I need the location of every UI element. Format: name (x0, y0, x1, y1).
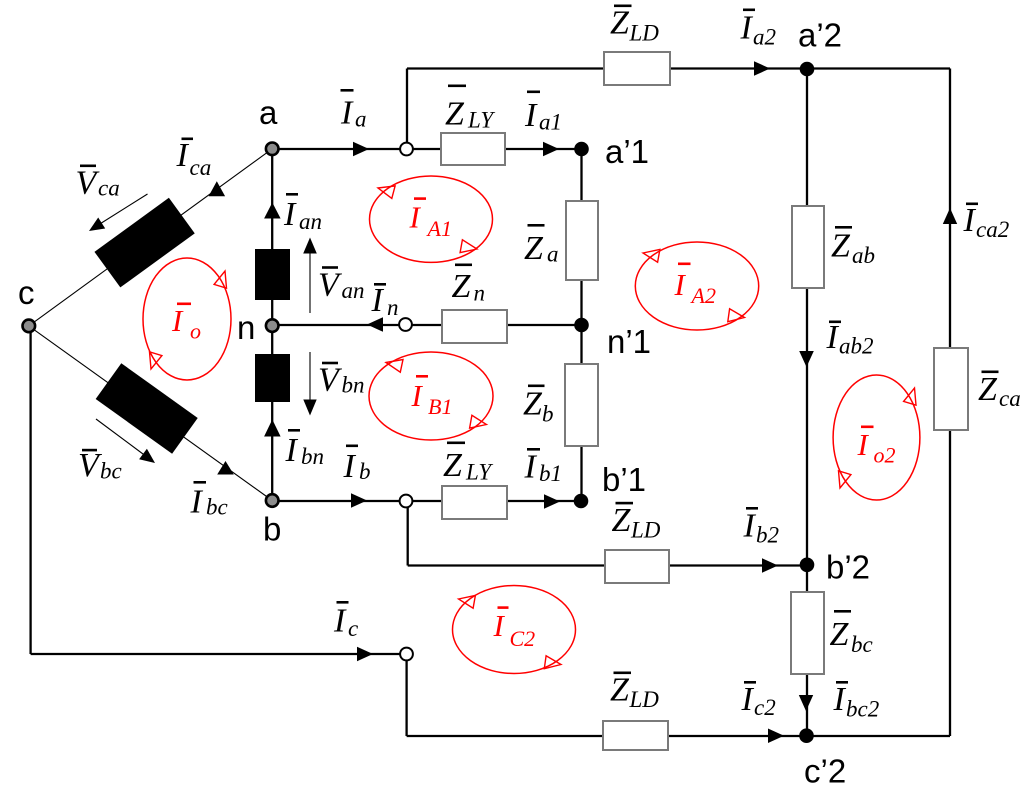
label Z_b (523, 385, 554, 427)
svg-text:I: I (743, 508, 757, 545)
wire I_c row (31, 653, 407, 655)
wire c column (29, 326, 31, 654)
impedance Z_ca box (934, 348, 968, 430)
svg-text:I: I (176, 137, 190, 174)
label Z_LD (c) (610, 672, 659, 713)
svg-text:ab2: ab2 (839, 334, 874, 359)
arrow I_a1 (543, 142, 559, 156)
wire right edge vertical (949, 69, 951, 737)
svg-text:Z: Z (978, 371, 998, 408)
arrow I_c (357, 647, 373, 661)
svg-text:LD: LD (629, 687, 660, 712)
svg-text:B1: B1 (428, 394, 452, 419)
wire c to b diagonal (29, 326, 272, 501)
label Z_ca (978, 371, 1021, 412)
svg-text:o: o (190, 319, 201, 344)
node b'2 (800, 558, 815, 573)
node b (266, 494, 279, 507)
wire bottom row (407, 735, 950, 737)
loop ellipse I_o (143, 258, 231, 380)
svg-text:ca2: ca2 (976, 217, 1009, 242)
svg-text:I: I (524, 449, 538, 486)
svg-text:I: I (371, 282, 385, 319)
label I_b (343, 445, 371, 486)
svg-text:ca: ca (98, 176, 120, 201)
label I_c (333, 601, 358, 641)
arrow I_bc2 (799, 695, 813, 711)
svg-text:LD: LD (630, 518, 661, 543)
svg-text:I: I (283, 196, 297, 233)
terminal on a row (400, 143, 413, 156)
arrow I_ca2 (943, 208, 957, 224)
node c (23, 320, 36, 333)
svg-text:LY: LY (465, 460, 493, 485)
svg-text:b: b (542, 402, 554, 427)
svg-text:Z: Z (443, 447, 463, 484)
label I_a1 (524, 91, 562, 135)
svg-text:Z: Z (831, 228, 851, 265)
svg-text:Z: Z (524, 230, 544, 267)
wire n row (272, 324, 582, 326)
arrow I_ca on diagonal (209, 181, 226, 196)
svg-text:c2: c2 (754, 695, 776, 720)
impedance Z_LD (c phase) box (603, 721, 668, 750)
label Z_LD (a) (610, 5, 659, 46)
label I_ca (176, 137, 212, 180)
svg-text:c: c (18, 274, 35, 311)
svg-text:a’2: a’2 (798, 17, 842, 54)
terminal on I_c row (400, 648, 413, 661)
svg-text:Z: Z (612, 502, 632, 539)
arrow I_n (367, 317, 383, 332)
impedance Z_a box (566, 201, 598, 280)
svg-text:a’1: a’1 (605, 133, 649, 170)
svg-text:ca: ca (190, 155, 212, 180)
svg-text:I: I (493, 608, 506, 643)
impedance Z_LY (a phase) box (441, 133, 505, 165)
arrow I_b1 (544, 494, 560, 509)
svg-text:an: an (342, 278, 365, 303)
impedance Z_LD (a phase) box (604, 52, 670, 85)
label Z_LD (b) (612, 502, 661, 543)
label I_o2 (857, 426, 896, 468)
source winding a-n (255, 249, 290, 300)
arrow I_bc on diagonal (217, 461, 234, 475)
voltage arrow V_bc (96, 419, 145, 456)
label I_a (340, 89, 367, 132)
svg-text:I: I (285, 432, 299, 469)
arrow I_an (264, 203, 281, 219)
svg-text:bc2: bc2 (846, 697, 879, 722)
node a'1 (574, 142, 589, 157)
svg-text:I: I (411, 378, 424, 413)
node n'1 (574, 318, 589, 333)
svg-text:I: I (190, 484, 204, 521)
voltage arrow V_an (309, 252, 311, 313)
svg-text:Z: Z (523, 386, 543, 423)
svg-text:n: n (474, 281, 486, 306)
source winding on c-b branch (96, 363, 198, 453)
arrow I_c2 (768, 729, 784, 744)
svg-text:Z: Z (610, 5, 630, 42)
svg-text:I: I (409, 200, 422, 235)
loop ellipse I_A1 (370, 176, 493, 262)
svg-text:b: b (359, 459, 371, 484)
svg-text:a2: a2 (753, 25, 776, 50)
label Z_LY (a) (445, 85, 495, 133)
svg-text:I: I (524, 97, 538, 134)
terminal on b row (400, 495, 413, 508)
svg-text:LD: LD (629, 21, 660, 46)
label Z_LY (b) (443, 442, 493, 485)
wire riser from I_c terminal down (405, 654, 407, 736)
loop ellipse I_o2 (833, 375, 920, 500)
label V_an (318, 266, 365, 303)
svg-text:Z: Z (445, 96, 465, 133)
label I_n (371, 282, 399, 320)
svg-text:n: n (237, 309, 255, 346)
label I_c2 (741, 681, 776, 720)
loop ellipse I_A2 (635, 242, 758, 330)
svg-text:b’1: b’1 (602, 461, 646, 498)
svg-text:b’2: b’2 (826, 549, 870, 586)
svg-text:I: I (343, 448, 357, 485)
svg-text:I: I (963, 202, 977, 239)
label I_an (283, 193, 322, 234)
impedance Z_LD (b phase) box (605, 550, 669, 583)
svg-text:I: I (740, 10, 754, 47)
source winding n-b (255, 354, 290, 402)
svg-text:Z: Z (452, 268, 472, 305)
svg-text:I: I (333, 603, 347, 640)
voltage arrow V_bn (309, 352, 311, 400)
node c'2 (799, 728, 814, 743)
arrow I_ab2 (799, 351, 814, 367)
svg-text:I: I (171, 303, 184, 338)
wire a'2 to c'2 column (806, 69, 808, 736)
node b'1 (574, 494, 589, 509)
loop ellipse I_C2 (453, 586, 576, 674)
arrow I_a (353, 142, 369, 156)
label I_C2 (493, 606, 536, 651)
svg-text:LY: LY (467, 108, 495, 133)
svg-text:b: b (263, 511, 281, 548)
arrow I_a2 (754, 61, 770, 76)
svg-text:I: I (674, 267, 687, 302)
svg-text:a: a (355, 107, 367, 132)
label V_bc (78, 447, 122, 484)
svg-text:Z: Z (610, 672, 630, 709)
svg-text:ca: ca (999, 386, 1021, 411)
svg-text:C2: C2 (510, 626, 536, 651)
impedance Z_n box (442, 310, 507, 343)
voltage arrow V_ca (99, 194, 148, 225)
arrow I_bn (264, 420, 281, 437)
svg-text:a1: a1 (539, 110, 562, 135)
label I_bc2 (833, 681, 880, 722)
node a (266, 143, 279, 156)
svg-text:A1: A1 (426, 216, 452, 241)
label I_o (171, 303, 201, 344)
svg-text:I: I (741, 681, 755, 718)
wire riser from a-row terminal up to top row (406, 69, 408, 150)
impedance Z_LY (b phase) box (442, 486, 507, 519)
svg-text:a: a (259, 94, 278, 131)
impedance Z_bc box (791, 592, 824, 674)
svg-text:I: I (833, 681, 847, 718)
label I_B1 (411, 375, 453, 419)
svg-text:an: an (299, 209, 322, 234)
impedance Z_ab box (792, 206, 824, 288)
label Z_n (452, 264, 486, 306)
svg-text:n: n (387, 295, 399, 320)
label Z_bc (830, 610, 873, 657)
label I_b1 (524, 448, 563, 486)
label I_A2 (674, 263, 716, 309)
label Z_a (524, 224, 559, 267)
label Z_ab (831, 226, 875, 268)
label I_A1 (409, 197, 452, 241)
node n (266, 319, 279, 332)
label I_b2 (743, 507, 780, 548)
label V_bn (318, 362, 365, 399)
wire a to a'1 row (272, 148, 582, 150)
terminal on n row (399, 318, 412, 331)
svg-text:bc: bc (206, 495, 228, 520)
svg-text:a: a (547, 242, 559, 267)
node a'2 (800, 62, 815, 77)
arrow I_b (351, 493, 367, 508)
svg-text:ab: ab (852, 243, 875, 268)
svg-text:I: I (857, 427, 870, 462)
wire riser from b-row terminal down (407, 501, 409, 566)
label I_ca2 (963, 202, 1010, 242)
label I_a2 (740, 9, 777, 50)
source winding on c-a branch (94, 198, 194, 288)
label V_ca (76, 165, 120, 202)
svg-text:bc: bc (100, 459, 122, 484)
svg-text:Z: Z (830, 616, 850, 653)
svg-text:bn: bn (342, 373, 365, 398)
label I_ab2 (826, 319, 874, 359)
wire b row (272, 500, 582, 502)
svg-text:bc: bc (851, 632, 873, 657)
wire c to a diagonal (29, 149, 272, 326)
svg-text:n’1: n’1 (607, 323, 651, 360)
impedance Z_b box (565, 364, 598, 446)
svg-text:bn: bn (301, 444, 324, 469)
svg-text:I: I (340, 95, 354, 132)
svg-text:c’2: c’2 (804, 753, 846, 789)
svg-text:b2: b2 (756, 523, 779, 548)
svg-text:o2: o2 (874, 443, 896, 468)
wire a-n-b source column (271, 149, 273, 501)
svg-text:A2: A2 (690, 283, 716, 308)
label I_bc (190, 481, 228, 521)
svg-text:b1: b1 (539, 461, 562, 486)
wire a'1 to b'1 column (580, 149, 582, 501)
wire top row to right edge (407, 67, 950, 69)
loop ellipse I_B1 (369, 352, 493, 440)
svg-text:c: c (348, 616, 358, 641)
wire b'2 row (408, 564, 807, 566)
label I_bn (285, 429, 325, 469)
svg-text:I: I (826, 319, 840, 356)
arrow I_b2 (762, 558, 778, 573)
